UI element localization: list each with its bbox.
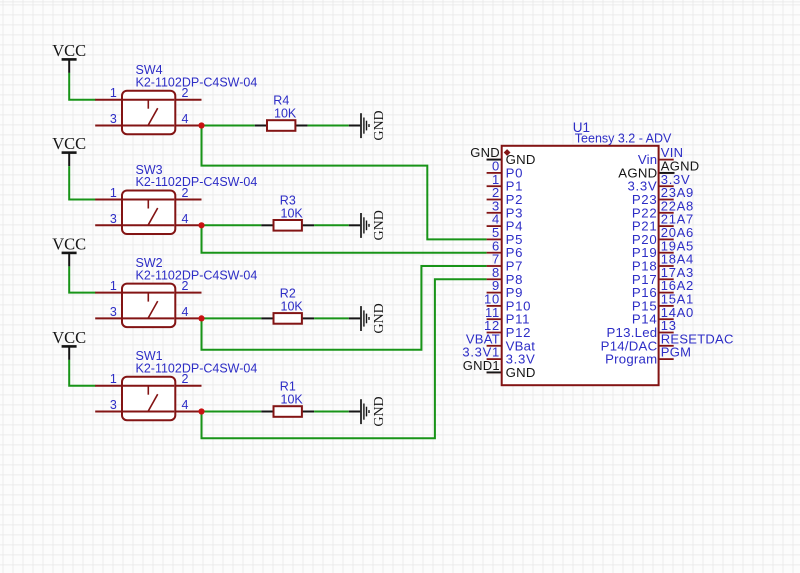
svg-text:10K: 10K (274, 107, 297, 121)
svg-text:GND: GND (506, 365, 536, 380)
svg-text:K2-1102DP-C4SW-04: K2-1102DP-C4SW-04 (136, 268, 258, 282)
svg-text:K2-1102DP-C4SW-04: K2-1102DP-C4SW-04 (136, 175, 258, 189)
svg-text:4: 4 (182, 398, 189, 412)
svg-text:GND: GND (372, 210, 387, 240)
svg-text:PGM: PGM (661, 345, 691, 360)
svg-text:4: 4 (182, 212, 189, 226)
svg-text:R4: R4 (273, 94, 289, 108)
svg-text:3: 3 (110, 305, 117, 319)
svg-text:1: 1 (110, 279, 117, 293)
svg-text:R3: R3 (280, 193, 296, 207)
svg-text:VCC: VCC (52, 41, 86, 60)
svg-text:3: 3 (110, 212, 117, 226)
svg-text:GND: GND (372, 396, 387, 426)
svg-text:2: 2 (182, 279, 189, 293)
svg-text:4: 4 (182, 305, 189, 319)
svg-text:1: 1 (110, 372, 117, 386)
svg-text:1: 1 (110, 86, 117, 100)
svg-text:10K: 10K (281, 393, 304, 407)
svg-text:GND: GND (372, 110, 387, 140)
svg-text:GND: GND (372, 303, 387, 333)
svg-text:2: 2 (182, 86, 189, 100)
svg-text:R2: R2 (280, 287, 296, 301)
svg-text:3: 3 (110, 398, 117, 412)
svg-text:Program: Program (605, 352, 657, 367)
svg-text:10K: 10K (281, 206, 304, 220)
svg-text:2: 2 (182, 186, 189, 200)
svg-text:R1: R1 (280, 380, 296, 394)
svg-text:4: 4 (182, 112, 189, 126)
svg-text:K2-1102DP-C4SW-04: K2-1102DP-C4SW-04 (136, 75, 258, 89)
svg-text:VCC: VCC (52, 235, 86, 254)
svg-text:K2-1102DP-C4SW-04: K2-1102DP-C4SW-04 (136, 361, 258, 375)
svg-text:10K: 10K (281, 300, 304, 314)
svg-text:GND1: GND1 (463, 358, 500, 373)
svg-text:3: 3 (110, 112, 117, 126)
svg-text:Teensy 3.2 - ADV: Teensy 3.2 - ADV (575, 132, 672, 146)
svg-text:VCC: VCC (52, 134, 86, 153)
svg-text:VCC: VCC (52, 328, 86, 347)
svg-text:1: 1 (110, 186, 117, 200)
svg-text:2: 2 (182, 372, 189, 386)
